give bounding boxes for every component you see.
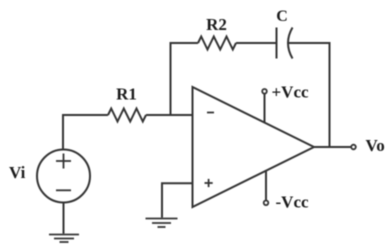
- wire Vi to ground: [63, 203, 65, 234]
- capacitor C left plate: [276, 28, 278, 59]
- source plus mark: [56, 154, 71, 169]
- terminal Vo circle: [351, 145, 356, 150]
- wire R1 to op-amp inverting input: [146, 114, 193, 116]
- ground (source): [49, 235, 79, 243]
- wire op-amp output: [314, 146, 351, 148]
- wire non-inverting input to ground: [162, 183, 193, 217]
- capacitor C right curved plate: [288, 28, 293, 59]
- voltage source Vi circle: [37, 150, 90, 203]
- svg-text:+Vcc: +Vcc: [272, 83, 310, 102]
- op-amp inverting input minus mark: [207, 112, 214, 114]
- wire R2 to capacitor: [236, 42, 277, 44]
- svg-text:Vo: Vo: [366, 136, 385, 155]
- ground (op-amp): [146, 219, 178, 228]
- resistor R2: [198, 37, 236, 50]
- svg-text:-Vcc: -Vcc: [276, 193, 309, 212]
- terminal -Vcc circle: [264, 201, 269, 206]
- resistor R1: [108, 109, 146, 122]
- wire feedback left vertical + top left segment: [171, 43, 199, 115]
- op-amp non-inverting input plus mark: [205, 179, 213, 187]
- svg-text:R1: R1: [116, 85, 137, 104]
- terminal +Vcc circle: [262, 89, 267, 94]
- svg-text:R2: R2: [206, 15, 227, 34]
- op-amp U1 triangle: [193, 87, 315, 207]
- wire -Vcc stub: [265, 171, 267, 201]
- wire Vi to R1: [63, 115, 108, 150]
- wire capacitor to right corner and feedback right vertical: [288, 43, 330, 147]
- wire +Vcc stub: [264, 94, 266, 123]
- source minus mark: [56, 189, 71, 191]
- svg-text:Vi: Vi: [9, 163, 26, 182]
- svg-text:C: C: [276, 8, 288, 25]
